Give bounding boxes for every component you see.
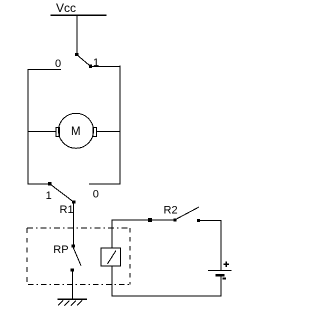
wire right rail <box>119 66 121 185</box>
svg-text:M: M <box>71 126 81 138</box>
wire S1 contact 0 to left rail <box>28 69 61 71</box>
switch R2 (open) <box>173 207 200 222</box>
ground <box>57 299 87 305</box>
wire R1 pivot down to RP switch <box>72 202 74 246</box>
node junction <box>148 218 152 222</box>
svg-text:Vcc: Vcc <box>56 1 76 15</box>
relay coil RP <box>101 248 121 266</box>
wire RP to ground <box>71 270 73 299</box>
wire S1 contact 1 to right rail <box>91 65 121 67</box>
wire left rail to switch R1 contact 1 <box>28 183 50 185</box>
svg-text:1: 1 <box>46 190 52 202</box>
svg-text:RP: RP <box>53 244 68 256</box>
relay enclosure (dashed box) <box>27 228 130 285</box>
svg-text:R1: R1 <box>60 204 74 216</box>
switch RP (open push switch) <box>71 244 81 271</box>
power rail Vcc <box>51 1 107 15</box>
wire motor to right rail <box>96 130 120 132</box>
wire battery negative to bottom rail <box>112 266 221 296</box>
wire node to R2 pivot <box>150 219 175 221</box>
svg-text:0: 0 <box>55 58 61 70</box>
wire R2 contact to battery <box>199 220 222 270</box>
wire left rail <box>27 69 29 185</box>
svg-text:0: 0 <box>93 189 99 201</box>
svg-text:1: 1 <box>93 57 99 69</box>
svg-text:R2: R2 <box>164 205 178 217</box>
wire right rail to switch R1 contact 0 <box>89 183 120 185</box>
switch R1 (bottom selector, lever on position 1) <box>48 182 75 203</box>
battery B1 <box>208 262 232 279</box>
motor M <box>56 113 96 148</box>
wire relay coil top to node <box>112 220 150 248</box>
switch S1 (top selector, lever on position 1) <box>75 53 92 68</box>
wire Vcc to switch S1 pivot <box>76 15 78 54</box>
wire left rail to motor <box>28 130 56 132</box>
